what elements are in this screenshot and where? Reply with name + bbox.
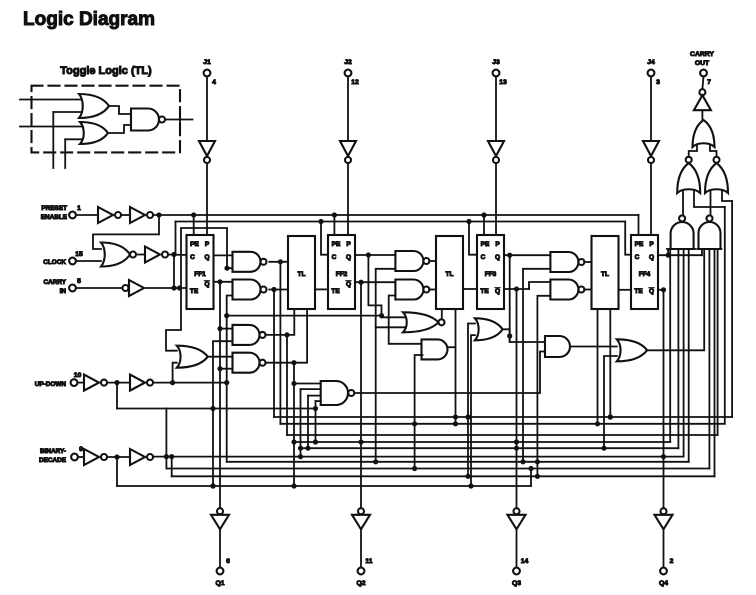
svg-text:J1: J1 (203, 59, 211, 66)
svg-text:DECADE: DECADE (39, 457, 67, 464)
svg-text:P: P (346, 241, 351, 248)
svg-text:PE: PE (190, 241, 199, 248)
svg-text:OUT: OUT (695, 60, 710, 67)
svg-text:TL: TL (446, 271, 454, 278)
svg-text:BINARY-: BINARY- (40, 448, 66, 455)
svg-text:Q: Q (495, 254, 500, 261)
svg-text:CLOCK: CLOCK (43, 259, 66, 266)
svg-text:1: 1 (77, 205, 81, 212)
svg-text:FF3: FF3 (485, 271, 497, 278)
svg-text:TL: TL (298, 271, 306, 278)
svg-text:TL: TL (601, 271, 609, 278)
svg-text:Q4: Q4 (659, 580, 668, 587)
svg-text:14: 14 (521, 558, 529, 565)
svg-text:P: P (205, 241, 210, 248)
svg-text:13: 13 (499, 79, 507, 86)
svg-text:IN: IN (60, 288, 67, 295)
svg-text:J3: J3 (492, 59, 500, 66)
svg-text:Logic Diagram: Logic Diagram (23, 9, 155, 30)
svg-text:C: C (190, 254, 195, 261)
svg-text:ENABLE: ENABLE (41, 214, 68, 221)
svg-text:J4: J4 (647, 59, 655, 66)
svg-text:Toggle Logic (TL): Toggle Logic (TL) (60, 65, 152, 77)
svg-text:PE: PE (332, 241, 341, 248)
svg-text:TE: TE (480, 288, 489, 295)
svg-text:C: C (332, 254, 337, 261)
svg-text:TE: TE (634, 288, 643, 295)
svg-text:4: 4 (212, 79, 216, 86)
svg-text:2: 2 (670, 558, 674, 565)
svg-text:FF4: FF4 (639, 271, 651, 278)
svg-text:Q: Q (204, 254, 209, 261)
svg-text:J2: J2 (344, 59, 352, 66)
svg-text:PE: PE (635, 241, 644, 248)
svg-text:Q: Q (346, 281, 351, 288)
svg-text:Q: Q (346, 254, 351, 261)
svg-text:C: C (635, 254, 640, 261)
svg-text:Q: Q (649, 288, 654, 295)
svg-text:Q3: Q3 (512, 580, 521, 587)
svg-text:5: 5 (77, 278, 81, 285)
svg-text:FF1: FF1 (194, 271, 206, 278)
svg-text:PE: PE (481, 241, 490, 248)
svg-text:11: 11 (365, 558, 372, 565)
svg-text:3: 3 (656, 79, 660, 86)
svg-text:Q: Q (204, 281, 209, 288)
svg-text:Q: Q (649, 254, 654, 261)
svg-text:12: 12 (351, 79, 359, 86)
svg-text:CARRY: CARRY (690, 51, 714, 58)
svg-text:Q1: Q1 (215, 580, 224, 587)
svg-text:Q: Q (495, 288, 500, 295)
svg-text:C: C (481, 254, 486, 261)
svg-text:7: 7 (707, 79, 711, 86)
svg-text:P: P (495, 241, 500, 248)
svg-text:PRESET: PRESET (41, 205, 67, 212)
svg-text:TE: TE (190, 288, 199, 295)
svg-text:Q2: Q2 (356, 580, 365, 587)
svg-text:P: P (649, 241, 654, 248)
svg-text:UP-DOWN: UP-DOWN (35, 381, 67, 388)
svg-text:6: 6 (226, 558, 230, 565)
svg-text:9: 9 (79, 446, 83, 453)
svg-text:CARRY: CARRY (44, 279, 67, 286)
svg-text:TE: TE (331, 288, 340, 295)
svg-text:FF2: FF2 (336, 271, 348, 278)
svg-text:15: 15 (75, 251, 83, 258)
svg-text:10: 10 (74, 372, 82, 379)
